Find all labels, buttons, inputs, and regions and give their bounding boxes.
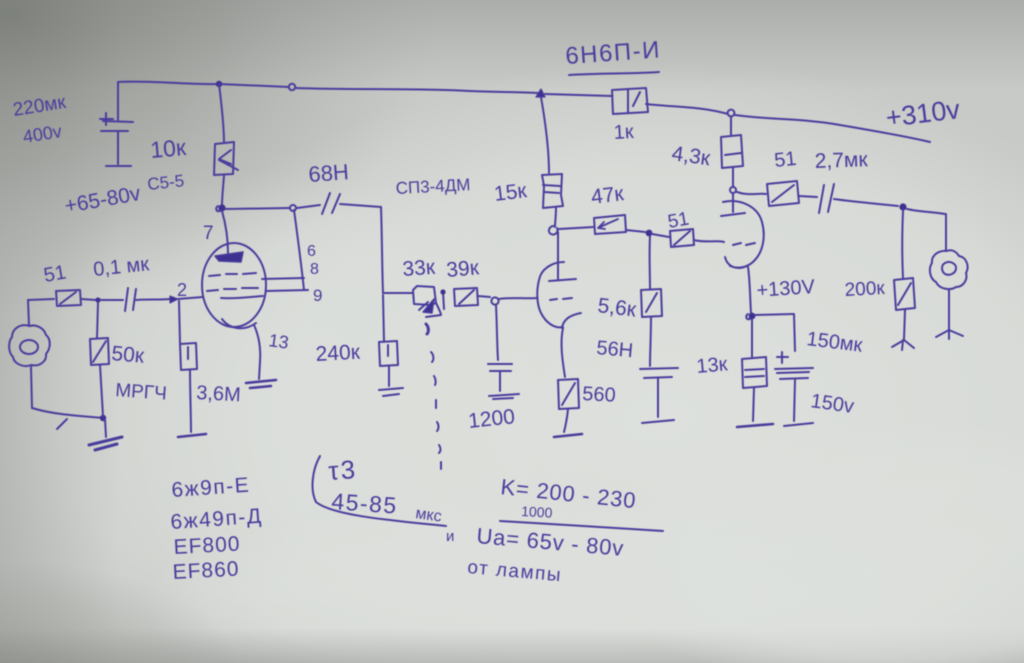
fraction bar under 1000 [500,521,663,531]
resistor R13 inner bar [725,153,741,155]
tube V1 anode blob [215,252,243,262]
wire corner down to grid row [381,207,383,293]
wire rail to R1 10k [219,84,224,143]
node at 4.3k tap [728,110,735,117]
svg-text:51: 51 [773,148,797,172]
capacitor C7 stem and bar [642,378,674,423]
wire rail +310v end [735,115,930,142]
wire R16 to ground [753,388,754,421]
wire 51b to tube V3 grid [694,240,724,242]
resistor R15 diagonal [898,283,911,305]
svg-text:2,7мк: 2,7мк [814,148,868,173]
capacitor C1 220mk plus sign [100,113,113,125]
tube V3 grid dashes [733,243,755,245]
resistor R8 inner bars [543,185,560,193]
wire 47k to node [626,230,645,232]
wire node down to R11 56k [649,236,651,289]
wire grid row down to R7 240k [383,295,384,341]
wire R1 to junction [222,176,224,205]
resistor R7 240k box [379,341,398,366]
svg-text:1200: 1200 [467,405,516,433]
wire R15 to ground [904,310,905,339]
wire junction to hollow node [226,208,290,209]
svg-text:15к: 15к [493,179,529,206]
capacitor C9 stem and bar [784,380,813,426]
wire R7 to ground [388,366,390,386]
tube V2 envelope arc [537,262,564,327]
wire J2 down [948,289,950,330]
tube V2 cathode hook [562,313,581,328]
ground below J2 [936,330,963,339]
potentiometer R5 33k box [413,286,436,305]
resistor R11 56k box [641,289,662,317]
wire J1 to 50k bottom junction [32,408,103,418]
svg-text:68Н: 68Н [308,159,350,187]
svg-text:13: 13 [267,330,290,353]
resistor R4 3.6M box [180,343,197,370]
wire corner down to J2 [945,214,947,250]
wire node to tube2 grid [499,298,537,299]
wire 51c to C8 [799,196,817,197]
svg-text:мкс: мкс [414,505,442,525]
wire pins up to row1 node [294,210,304,290]
wire node to 51b [652,234,669,237]
resistor R16 inner bars [745,369,764,377]
svg-text:13к: 13к [696,353,729,378]
resistor R13 4.3k box [721,135,743,168]
wire into tube V1 grid [178,297,203,299]
node at 50k tap [95,297,100,302]
tube V1 grid dashes row2 [207,288,258,291]
wire anode V2 from node [557,232,559,262]
wire junction to ground [105,419,106,437]
node junction on rail [216,81,222,87]
capacitor C5 stem and bar [489,372,519,399]
svg-text:5,6к: 5,6к [596,294,638,322]
ground below R15 [892,340,914,350]
node hollow at V3 anode [730,187,736,193]
resistor R9 arrow [598,219,618,229]
wire rail 1k to 4.3k tap [646,104,728,114]
svg-text:51: 51 [666,209,690,233]
node hollow grid row [491,297,498,304]
potentiometer R6 39k box [454,288,478,306]
svg-text:6: 6 [307,243,316,260]
ground below R16 [737,424,773,427]
tube V3 anode bar [721,213,745,216]
resistor R2 51 box [56,290,81,306]
tube V2 anode lead [557,262,559,279]
node junction right of 47k [646,230,653,237]
potentiometer R3 50k box [90,338,109,365]
wire corner down to C9 [794,314,795,351]
wire node down from 50k tap [97,303,98,338]
svg-text:200к: 200к [844,278,886,301]
svg-text:3,6М: 3,6М [196,382,242,406]
svg-text:50к: 50к [111,342,146,368]
wire J1 bottom down [31,367,32,408]
svg-text:1000: 1000 [521,503,553,521]
potentiometer R3 diagonal [93,341,106,362]
resistor R15 200k box [894,278,915,310]
wire +130V node to corner [755,314,793,315]
svg-text:33к: 33к [402,256,437,281]
svg-text:10к: 10к [149,134,188,163]
svg-text:47к: 47к [590,182,626,209]
tube V3 cathode hook [725,257,747,268]
dashed gang link below 33k [426,324,428,334]
wire R11 to C7 [650,317,651,366]
node hollow below R8 [549,226,558,235]
resistor R10 51 box [670,229,694,247]
svg-text:C5-5: C5-5 [146,171,185,194]
wire R4 to ground [190,370,191,432]
node hollow row1 [290,205,296,211]
resistor R14 diagonal [772,185,794,202]
wire rail tap down to R8 15k [541,97,549,173]
wire anode node down to anode bar [732,193,734,212]
wire node to 47k [559,227,594,229]
ground below R12 [554,434,582,437]
resistor R12 560 box [558,379,579,409]
wire node down to R15 200k [901,211,904,278]
wire C2 to corner [340,204,381,207]
resistor R10 diagonal [674,231,690,245]
ground below V1 cathode [246,380,276,388]
capacitor C7 56H plates [640,368,678,378]
resistor R8 15k box [542,174,563,208]
svg-text:7: 7 [203,223,214,244]
resistor R12 diagonal [562,383,575,405]
wire R12 to ground [564,409,568,432]
wire cathode V1 down [254,325,260,379]
svg-text:+130V: +130V [756,276,816,302]
resistor R16 13k box [742,357,767,388]
output connector J2 inner [942,262,956,275]
wire cathode V3 down [748,267,751,313]
wire node to output corner [907,209,945,214]
resistor R14 51 box [767,181,799,206]
svg-text:EF800: EF800 [173,533,241,559]
capacitor C2 68H strokes [322,193,340,214]
wire input row to pin2 [28,299,54,300]
capacitor C1 220mk plates [101,121,133,131]
wire grid row to 33k [383,292,412,294]
resistor R17 1k box [612,88,648,114]
svg-text:τ3: τ3 [327,454,358,486]
resistor R1 10k box [214,142,234,175]
wire R8 to node [555,208,556,227]
resistor R11 diagonal [646,293,657,312]
resistor R2 diagonal [60,292,76,304]
input connector J1 inner [20,340,38,354]
svg-text:51: 51 [42,261,68,287]
svg-text:и: и [446,528,454,545]
node wiper tap [443,292,444,309]
label 6N6P underline [569,72,659,75]
wire C3 to pin2 [136,299,170,300]
wire pin2 node down to R4 [179,301,180,343]
arrow at pin2 node [170,296,178,303]
wire R3 to junction [100,365,103,416]
svg-text:СП3-4ДМ: СП3-4ДМ [395,175,471,198]
wire node to C2 [297,205,320,208]
wire node down to R16 13k [751,319,753,357]
ground below R3 [89,437,122,450]
wire B+ rail top-left segment [118,82,289,87]
capacitor C1 lower stem and bar [106,132,131,166]
tube V1 envelope [202,243,266,327]
svg-text:560: 560 [582,383,616,407]
resistor R1 arrow inside [219,150,238,170]
tube V1 pin6/8 lines to right [262,278,308,291]
svg-text:1к: 1к [613,121,634,144]
svg-text:45-85: 45-85 [331,488,399,519]
wire down to C1 [117,82,119,120]
svg-text:EF860: EF860 [172,558,240,584]
capacitor C3 0.1mk strokes [125,288,136,311]
tube V2 grid dashes [550,298,572,300]
capacitor C9 plates [775,368,813,379]
wire anode node to 51c [737,192,766,194]
tick on bottom wire [57,419,67,429]
wire C8 to node [834,199,898,206]
svg-text:56Н: 56Н [596,337,634,362]
ground below R4 [178,434,206,437]
svg-text:240к: 240к [315,341,361,366]
wire anode V1 [222,211,228,253]
svg-text:2: 2 [177,280,187,300]
capacitor C5 1200 plates [488,364,512,371]
wire rail to 1k [545,94,612,96]
wire row to J1 top [28,300,29,326]
resistor R17 divider and slash [628,89,640,113]
node arrow at 15k tap [536,89,545,97]
input connector J1 outer [9,325,50,366]
node hollow on rail [289,84,295,90]
ground below R7 [379,388,403,396]
potentiometer R6 diagonal [459,290,474,304]
wire R13 to anode node [732,168,734,186]
wire cathode V2 down [562,328,565,377]
wire 39k to node [478,296,490,297]
wire 4.3k tap down [730,117,732,136]
svg-text:9: 9 [313,286,322,305]
capacitor C9 150mk plus [777,352,788,363]
tau bracket [313,456,446,526]
wire R2 to node [81,299,96,300]
wire node down to C5 1200 [496,305,498,360]
tube V1 cathode arc [222,319,256,328]
node at 200k tap [899,203,906,210]
node at +130V [749,313,756,320]
svg-text:МРГЧ: МРГЧ [115,380,168,405]
wire node to C3 [100,299,123,301]
capacitor C8 2.7mk strokes [819,184,834,213]
tube V3 envelope arc [723,201,764,268]
tube V1 grid dashes row1 [209,273,256,276]
resistor R9 47k box [594,215,626,234]
svg-text:39к: 39к [445,256,480,282]
svg-text:8: 8 [310,261,319,278]
tube V1 grid dashes row3 [221,296,263,298]
potentiometer R5 wiper arrow [423,299,434,313]
output connector J2 outer [930,250,968,289]
node junction below R1 [218,204,225,211]
node bottom junction [100,415,106,421]
tube V2 anode bar [549,279,576,281]
wire rail middle segment [296,88,538,93]
